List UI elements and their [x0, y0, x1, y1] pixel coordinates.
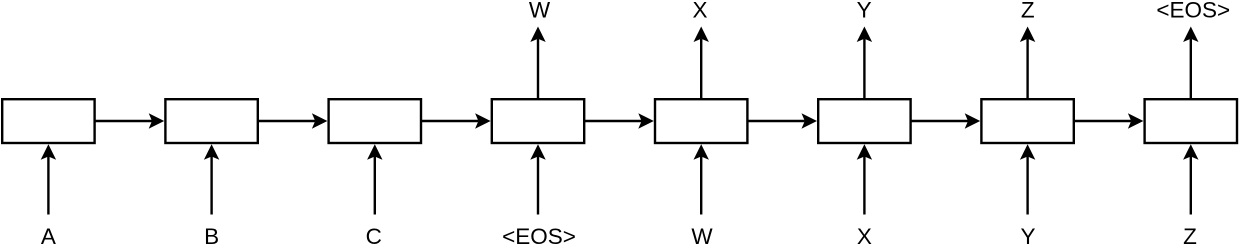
wire: output arrow "W" from box 4	[530, 27, 545, 100]
svg-text:B: B	[204, 224, 219, 248]
wire: input arrow "B" into box 2	[204, 144, 219, 214]
wire: input arrow "C" into box 3	[367, 144, 382, 214]
node label: output token Z	[1021, 0, 1035, 22]
wire: input arrow "X" into box 6	[857, 144, 872, 214]
node label: input token W	[691, 224, 713, 248]
wire: hidden-state arrow box 1 to box 2	[95, 113, 165, 128]
RNN cell box 8	[1145, 99, 1237, 143]
svg-text:A: A	[41, 224, 56, 248]
svg-text:<EOS>: <EOS>	[502, 224, 576, 248]
wire: hidden-state arrow box 2 to box 3	[258, 113, 328, 128]
RNN cell box 5	[655, 99, 747, 143]
wire: output arrow "X" from box 5	[694, 27, 709, 100]
node label: input token B	[204, 224, 219, 248]
wire: input arrow "A" into box 1	[41, 144, 56, 214]
wire: hidden-state arrow box 3 to box 4	[421, 113, 491, 128]
RNN cell box 6	[818, 99, 910, 143]
RNN cell box 1	[2, 99, 94, 143]
node label: output token W	[529, 0, 551, 22]
svg-text:Y: Y	[857, 0, 872, 22]
wire: input arrow "Y" into box 7	[1020, 144, 1035, 214]
wire: input arrow "Z" into box 8	[1183, 144, 1198, 214]
RNN cell box 7	[981, 99, 1073, 143]
node label: input token Z	[1183, 224, 1197, 248]
node label: input token &lt;EOS&gt;	[502, 224, 576, 248]
RNN cell box 2	[165, 99, 257, 143]
node label: input token A	[41, 224, 56, 248]
node label: output token X	[692, 0, 707, 22]
svg-text:Y: Y	[1020, 224, 1035, 248]
wire: hidden-state arrow box 4 to box 5	[584, 113, 654, 128]
svg-text:W: W	[691, 224, 713, 248]
node label: input token C	[366, 224, 382, 248]
wire: output arrow "&lt;EOS&gt;" from box 8	[1183, 27, 1198, 100]
svg-text:W: W	[529, 0, 551, 22]
svg-text:X: X	[692, 0, 707, 22]
svg-text:Z: Z	[1021, 0, 1035, 22]
wire: output arrow "Z" from box 7	[1020, 27, 1035, 100]
node label: output token &lt;EOS&gt;	[1156, 0, 1230, 22]
wire: hidden-state arrow box 5 to box 6	[747, 113, 817, 128]
wire: input arrow "W" into box 5	[694, 144, 709, 214]
node label: output token Y	[857, 0, 872, 22]
wire: hidden-state arrow box 6 to box 7	[911, 113, 981, 128]
svg-text:<EOS>: <EOS>	[1156, 0, 1230, 22]
RNN cell box 3	[329, 99, 421, 143]
RNN cell box 4	[492, 99, 584, 143]
svg-text:Z: Z	[1183, 224, 1197, 248]
svg-text:C: C	[366, 224, 382, 248]
wire: hidden-state arrow box 7 to box 8	[1074, 113, 1144, 128]
wire: input arrow "&lt;EOS&gt;" into box 4	[530, 144, 545, 214]
node label: input token Y	[1020, 224, 1035, 248]
svg-text:X: X	[857, 224, 872, 248]
wire: output arrow "Y" from box 6	[857, 27, 872, 100]
node label: input token X	[857, 224, 872, 248]
